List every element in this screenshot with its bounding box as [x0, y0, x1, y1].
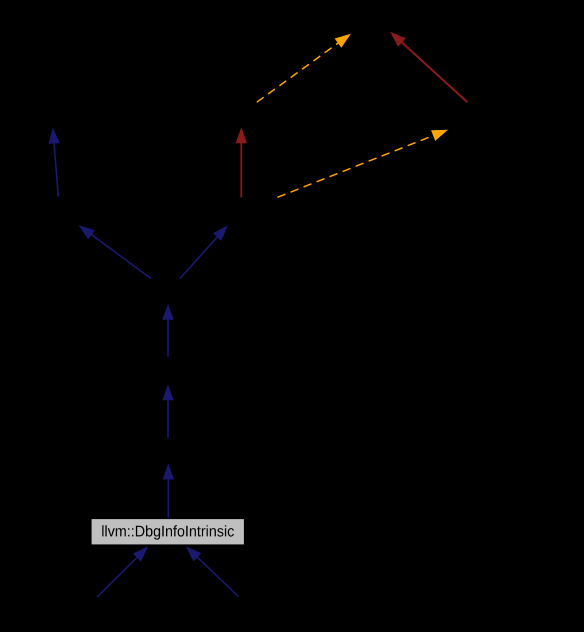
node llvm::DbgInfoIntrinsic (current class, gray box) [91, 519, 245, 546]
inheritance arrow Instruction -> User [75, 221, 151, 279]
private inheritance arrow ilist_node_with_parent<Instruction,BasicBlock> -> ilist_node<Instruction> [236, 127, 247, 197]
inheritance arrow Instruction -> ilist_node_with_parent [180, 221, 232, 278]
inheritance arrow DbgInfoIntrinsic -> IntrinsicInst [163, 464, 174, 518]
inheritance arrow IntrinsicInst -> CallInst [162, 384, 173, 437]
template relation arrow ilist_node<Instruction> -> ilist_node<NodeTy> [257, 29, 354, 102]
inheritance arrow CallInst -> Instruction [162, 304, 173, 357]
template relation arrow ilist_node_with_parent<Instruction,BasicBlock> -> ilist_node_with_parent<NodeTy,ParentTy> [278, 124, 451, 197]
inheritance arrow User -> Value [47, 127, 60, 196]
inheritance arrow DbgDeclareInst -> DbgInfoIntrinsic [97, 542, 152, 597]
private inheritance arrow ilist_node_with_parent<NodeTy,ParentTy> -> ilist_node<NodeTy> [386, 27, 467, 102]
inheritance arrow DbgValueInst -> DbgInfoIntrinsic [182, 542, 239, 596]
